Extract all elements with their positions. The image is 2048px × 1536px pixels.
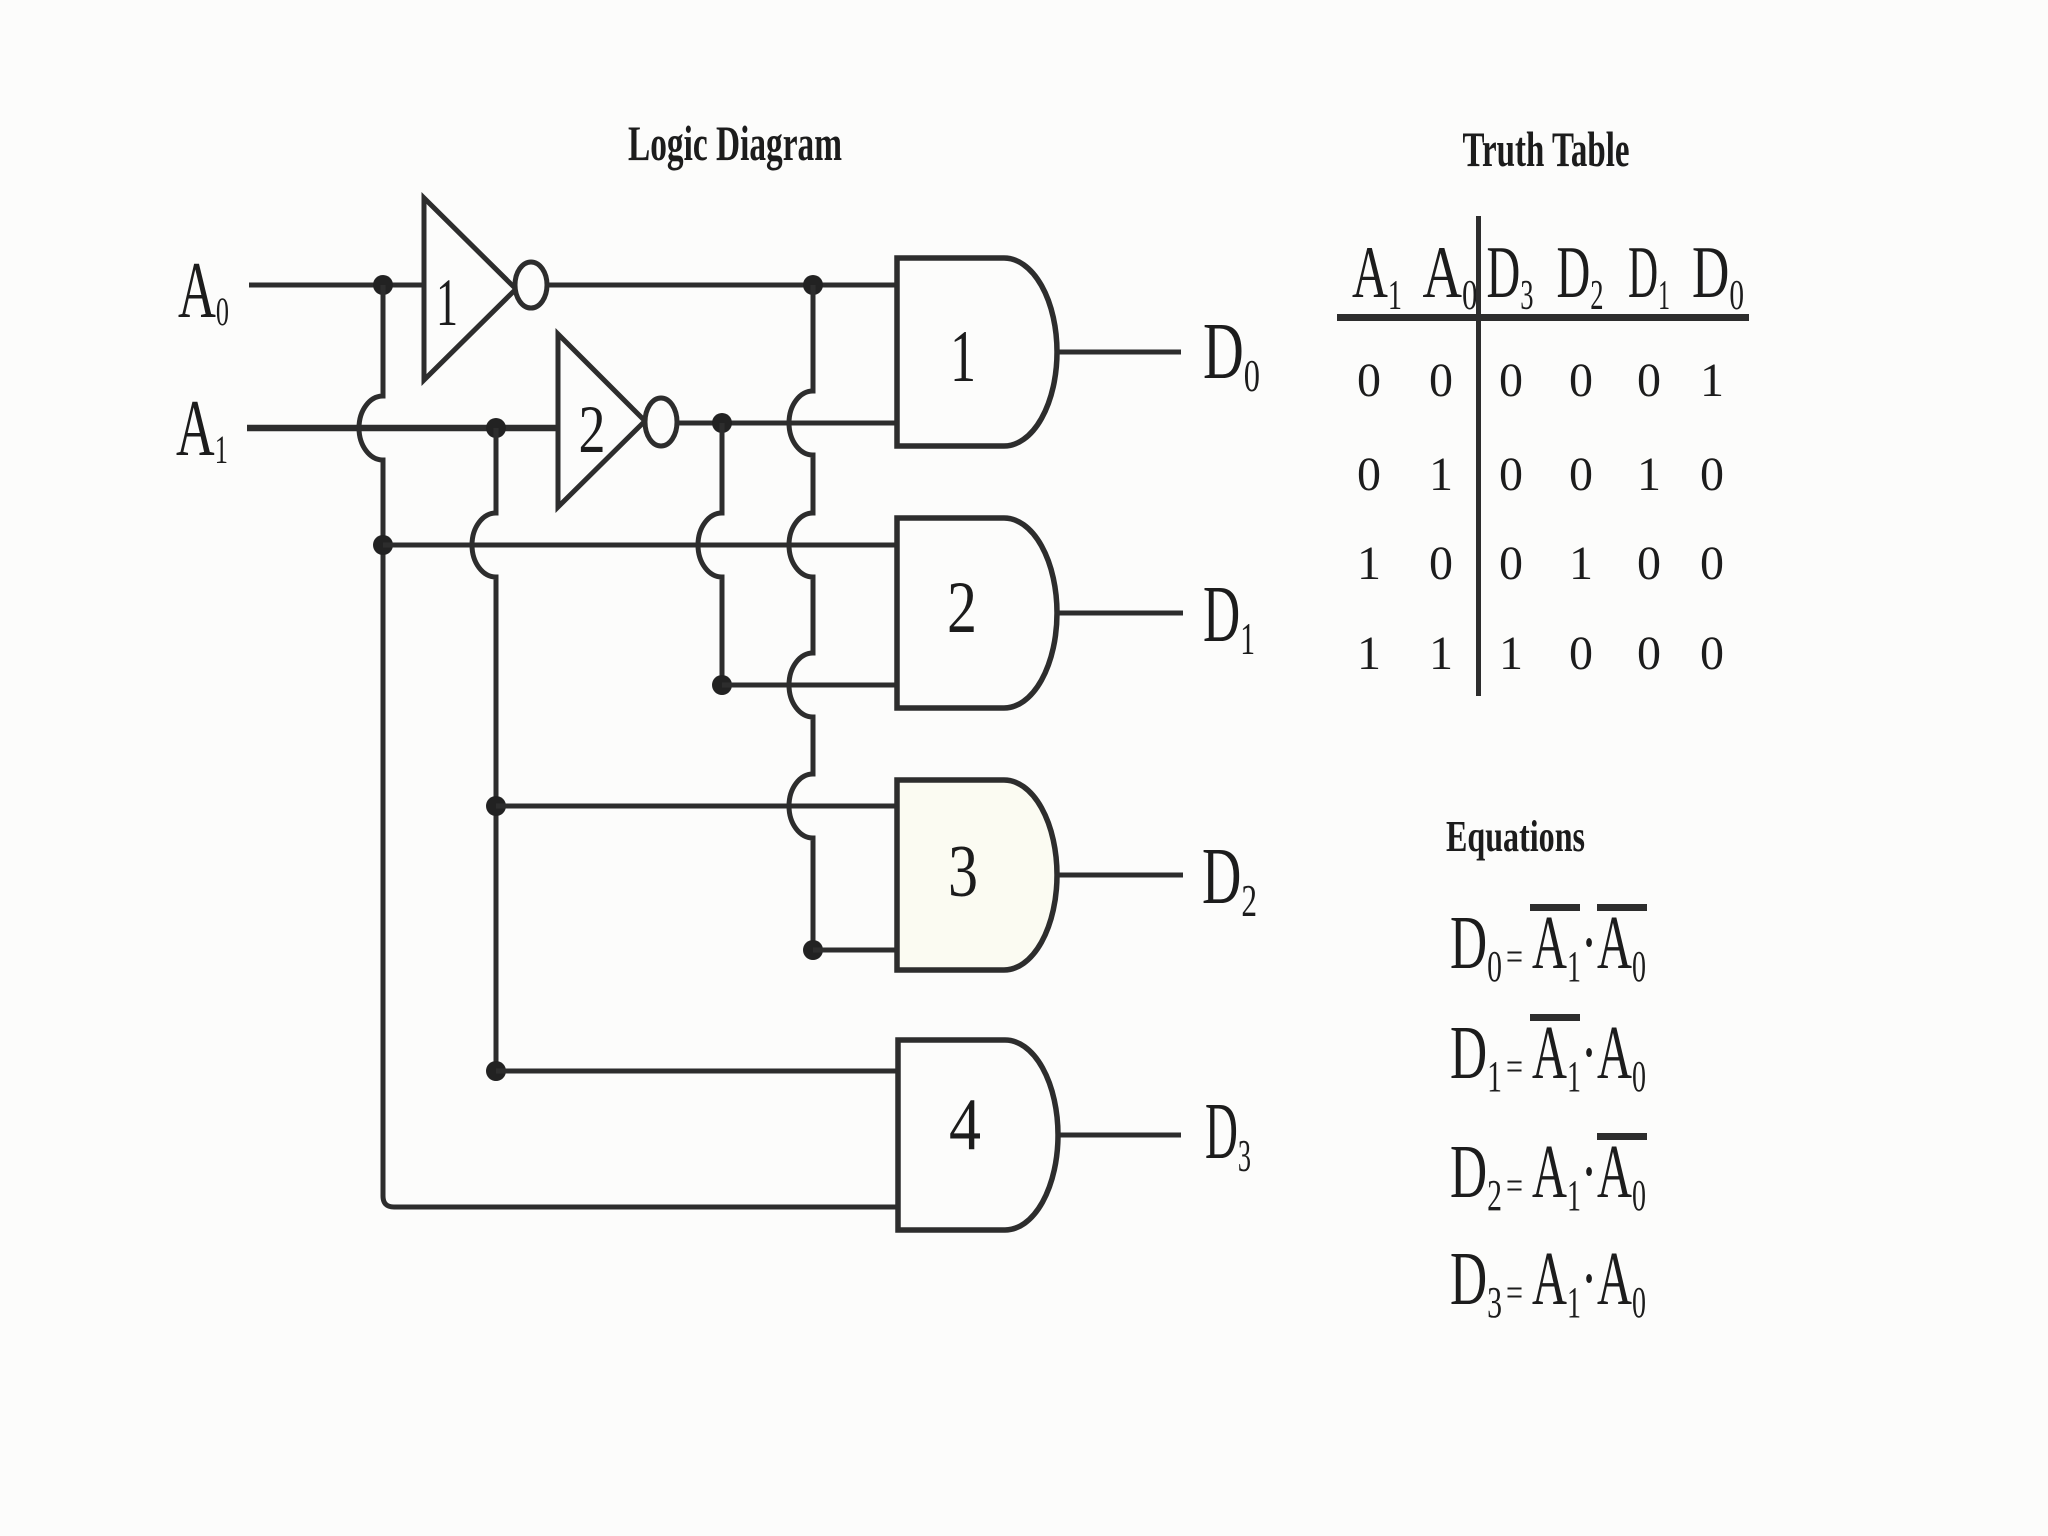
label D2 (1202, 833, 1257, 926)
svg-text:0: 0 (1569, 448, 1593, 501)
svg-text:D0: D0 (1203, 308, 1260, 401)
svg-text:0: 0 (1499, 354, 1523, 407)
svg-text:D1: D1 (1203, 571, 1255, 664)
wire output D3 (1058, 1133, 1181, 1138)
label 1 (inverter 1) (436, 264, 458, 340)
svg-text:A1·A0: A1·A0 (1532, 1011, 1646, 1101)
equation D3 = A1 . A0 (1450, 1237, 1646, 1327)
svg-text:0: 0 (1357, 448, 1381, 501)
svg-text:3: 3 (948, 831, 978, 913)
svg-text:1: 1 (1429, 627, 1453, 680)
svg-text:=: = (1506, 1270, 1523, 1315)
truth table row 4: 1 1 1 0 0 0 (1357, 627, 1724, 680)
svg-text:1: 1 (1637, 448, 1661, 501)
svg-text:0: 0 (1499, 537, 1523, 590)
node V2 to AND3 top wire (486, 796, 506, 816)
wire A1-bar branch to AND 2 bottom input (722, 683, 899, 688)
inverter 2 (558, 334, 677, 507)
wire A0 branch to AND 2 top input (383, 543, 899, 548)
label A1 input (176, 385, 228, 473)
node V2 to AND4 top wire (486, 1061, 506, 1081)
svg-text:D2: D2 (1450, 1130, 1502, 1220)
equation D2 = A1 . A0-bar (1450, 1130, 1647, 1220)
wire output D1 (1057, 611, 1183, 616)
svg-text:2: 2 (947, 567, 977, 649)
svg-text:4: 4 (949, 1084, 981, 1166)
AND gate 1 (897, 258, 1057, 446)
svg-text:1: 1 (1700, 354, 1724, 407)
svg-text:1: 1 (1429, 448, 1453, 501)
svg-text:0: 0 (1637, 537, 1661, 590)
wire A0-bar branch to AND 3 bottom input (813, 948, 900, 953)
equation D0 = A1-bar . A0-bar (1450, 901, 1647, 991)
svg-text:A1·A0: A1·A0 (1532, 1130, 1646, 1220)
wire vertical V4 A0-bar down with hops over four wires (789, 285, 813, 950)
svg-text:1: 1 (436, 264, 458, 340)
svg-text:1: 1 (1499, 627, 1523, 680)
truth table vertical rule (1476, 216, 1481, 696)
node A1 junction (486, 418, 506, 438)
svg-text:A1: A1 (176, 385, 228, 473)
svg-text:Equations: Equations (1446, 812, 1585, 861)
svg-text:Truth Table: Truth Table (1463, 121, 1630, 177)
wire vertical V1 A0 down with hop over A1 and corner to AND 4 bottom input (359, 285, 899, 1207)
wire output D2 (1057, 873, 1183, 878)
svg-text:D2: D2 (1557, 232, 1604, 319)
svg-text:0: 0 (1700, 537, 1724, 590)
wire A0-bar from inverter 1 to AND 1 top input (547, 283, 899, 288)
node A1-bar branch (712, 413, 732, 433)
svg-text:A0: A0 (178, 247, 229, 335)
truth table horizontal rule (1337, 314, 1749, 321)
wire output D0 (1057, 350, 1181, 355)
svg-text:A1·A0: A1·A0 (1532, 1237, 1646, 1327)
label 3 (AND gate 3) (948, 831, 978, 913)
svg-text:1: 1 (1569, 537, 1593, 590)
svg-text:1: 1 (1357, 537, 1381, 590)
wire A1 branch to AND 3 top input (496, 804, 900, 809)
wire A1 branch to AND 4 top input (496, 1069, 900, 1074)
svg-text:0: 0 (1700, 448, 1724, 501)
svg-text:A1: A1 (1352, 232, 1402, 319)
label 2 (inverter 2) (579, 391, 606, 467)
svg-text:A1·A0: A1·A0 (1532, 901, 1646, 991)
node A0-bar branch (803, 275, 823, 295)
svg-text:0: 0 (1700, 627, 1724, 680)
AND gate 3 (897, 780, 1057, 970)
svg-text:=: = (1506, 1163, 1523, 1208)
truth table row 3: 1 0 0 1 0 0 (1357, 537, 1724, 590)
svg-text:D3: D3 (1487, 232, 1534, 319)
svg-text:Logic Diagram: Logic Diagram (628, 115, 842, 171)
svg-text:0: 0 (1637, 354, 1661, 407)
svg-text:1: 1 (950, 316, 976, 398)
svg-text:=: = (1506, 934, 1523, 979)
truth table row 2: 0 1 0 0 1 0 (1357, 448, 1724, 501)
node V3 to AND2 bottom wire (712, 675, 732, 695)
svg-text:=: = (1506, 1044, 1523, 1089)
label D1 (1203, 571, 1255, 664)
svg-text:D3: D3 (1205, 1088, 1251, 1181)
truth table row 1: 0 0 0 0 0 1 (1357, 354, 1724, 407)
wire A1 input segment (247, 425, 558, 432)
wire vertical V2 A1 down with hop over AND2-top wire (472, 428, 496, 1071)
node V4 to AND3 bottom wire (803, 940, 823, 960)
label 4 (AND gate 4) (949, 1084, 981, 1166)
node V1 to AND2 top wire (373, 535, 393, 555)
AND gate 4 (898, 1040, 1058, 1230)
truth table header A1 A0 D3 D2 D1 D0 (1352, 232, 1744, 319)
AND gate 2 (897, 518, 1057, 708)
svg-text:D3: D3 (1450, 1237, 1502, 1327)
inverter 1 (424, 198, 547, 380)
label D3 (1205, 1088, 1251, 1181)
label 1 (AND gate 1) (950, 316, 976, 398)
svg-text:A0: A0 (1423, 232, 1478, 319)
svg-text:0: 0 (1569, 627, 1593, 680)
wire A0 input segment (249, 283, 424, 288)
wire vertical V3 A1-bar down with hop over AND2-top wire (698, 423, 722, 685)
svg-text:0: 0 (1499, 448, 1523, 501)
node A0 junction (373, 275, 393, 295)
label A0 input (178, 247, 229, 335)
svg-text:0: 0 (1429, 354, 1453, 407)
svg-text:0: 0 (1569, 354, 1593, 407)
svg-text:D2: D2 (1202, 833, 1257, 926)
wire A1-bar from inverter 2 to AND 1 bottom input (677, 421, 899, 426)
svg-text:0: 0 (1429, 537, 1453, 590)
svg-text:D1: D1 (1450, 1011, 1502, 1101)
svg-text:1: 1 (1357, 627, 1381, 680)
label D0 (1203, 308, 1260, 401)
equation D1 = A1-bar . A0 (1450, 1011, 1646, 1101)
svg-text:D1: D1 (1628, 232, 1670, 319)
svg-text:2: 2 (579, 391, 606, 467)
svg-text:0: 0 (1637, 627, 1661, 680)
svg-text:0: 0 (1357, 354, 1381, 407)
svg-text:D0: D0 (1450, 901, 1502, 991)
label 2 (AND gate 2) (947, 567, 977, 649)
svg-text:D0: D0 (1692, 232, 1744, 319)
